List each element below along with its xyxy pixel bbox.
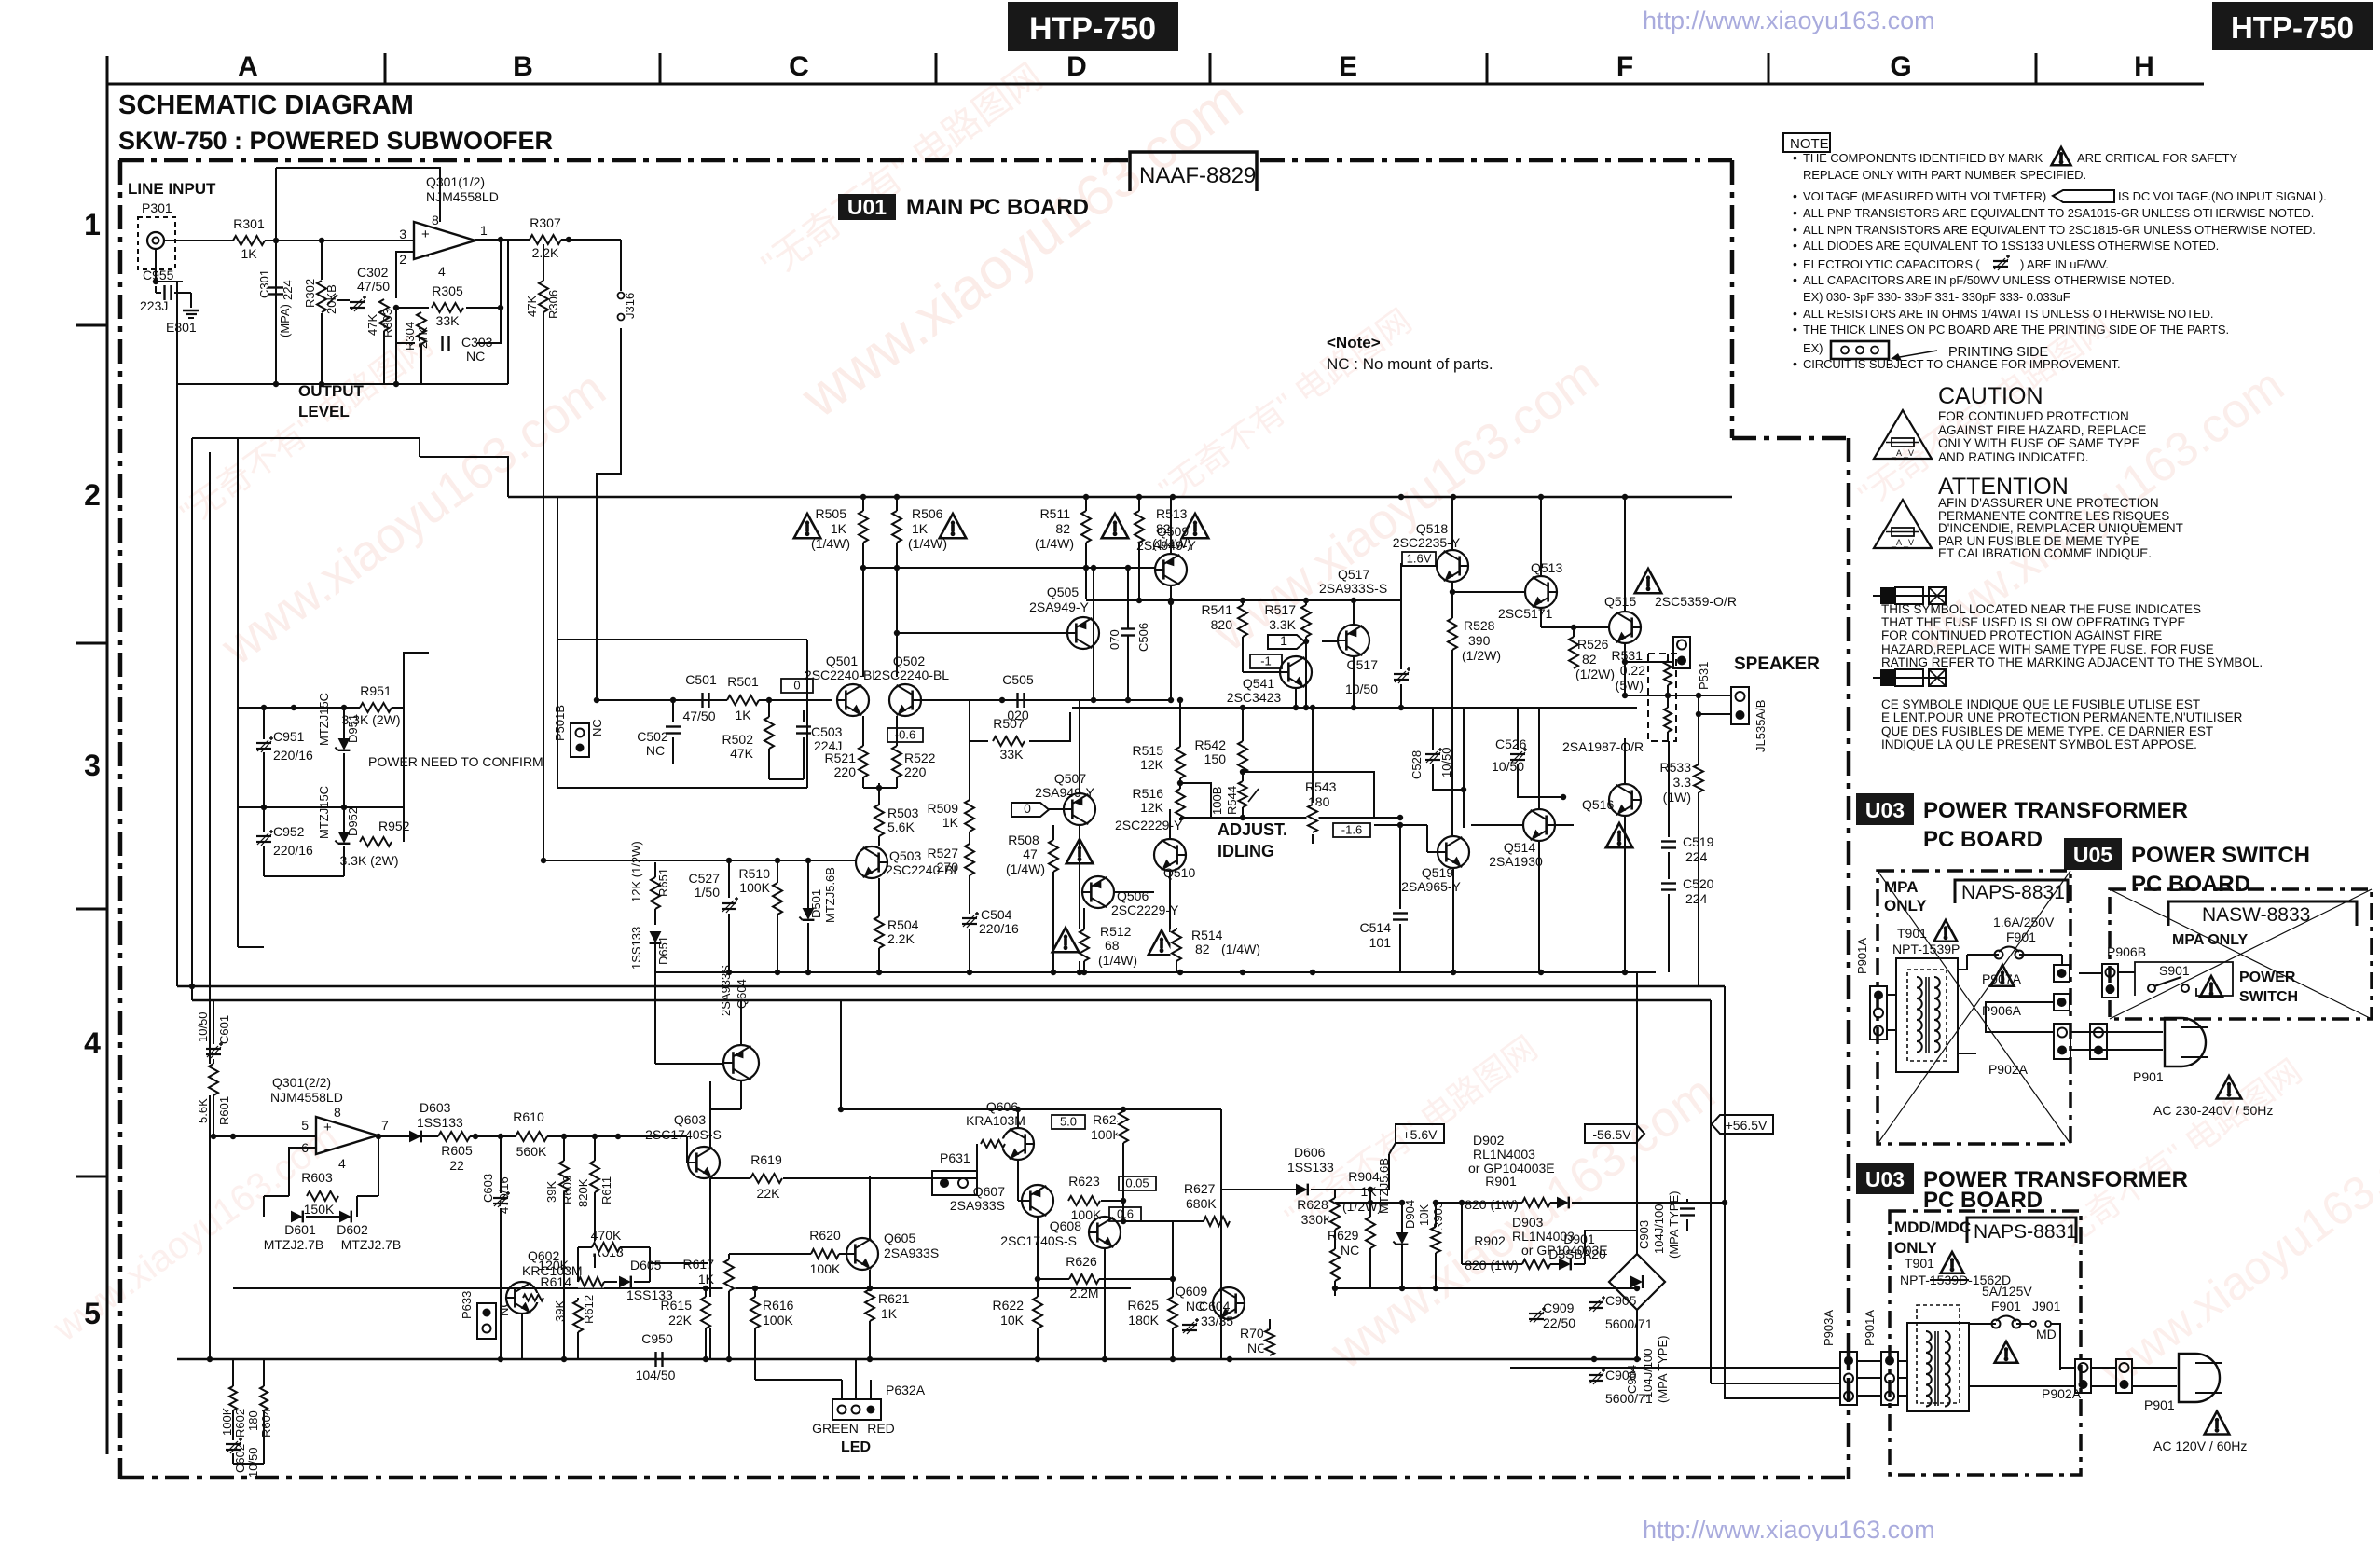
svg-text:R544: R544	[1225, 786, 1239, 815]
connector P633	[477, 1303, 496, 1339]
svg-text:2SC5359-O/R: 2SC5359-O/R	[1655, 594, 1737, 609]
diode D605	[619, 1276, 631, 1288]
svg-text:C506: C506	[1136, 623, 1150, 652]
svg-text:MPA: MPA	[1884, 878, 1919, 896]
svg-text:R609: R609	[560, 1176, 574, 1204]
svg-text:820K: 820K	[576, 1178, 590, 1207]
svg-text:AC 120V / 60Hz: AC 120V / 60Hz	[2153, 1438, 2247, 1453]
svg-text:0: 0	[1024, 801, 1031, 816]
svg-text:3: 3	[399, 227, 406, 241]
resistor R531 dashed block	[1648, 654, 1676, 741]
fuse slow-blow symbol 1	[1873, 595, 1946, 597]
value box 0.05	[1119, 1176, 1156, 1190]
wire speaker line	[1625, 695, 1731, 696]
wire MPA to plug	[2070, 1031, 2163, 1033]
resistor R304	[416, 312, 428, 344]
svg-text:C601: C601	[217, 1015, 231, 1044]
svg-text:2SA965-Y: 2SA965-Y	[1401, 879, 1461, 894]
main board border right edge lower	[1847, 438, 1851, 1479]
capacitor C519	[1668, 741, 1670, 837]
svg-text:2: 2	[399, 252, 406, 267]
resistor R501	[727, 695, 759, 707]
svg-text:Q541: Q541	[1243, 676, 1274, 691]
svg-text:Q513: Q513	[1531, 560, 1562, 575]
svg-text:2.2K: 2.2K	[532, 245, 559, 260]
svg-text:C952: C952	[273, 824, 305, 839]
value box -1	[1250, 654, 1282, 668]
resistor R517	[1305, 599, 1307, 606]
svg-text:U05: U05	[2073, 843, 2112, 867]
svg-text:0: 0	[793, 679, 800, 693]
svg-text:MTZJ15C: MTZJ15C	[317, 693, 331, 746]
svg-text:R303: R303	[380, 309, 394, 337]
capacitor C520	[1661, 882, 1676, 884]
svg-text:RL1N4003: RL1N4003	[1473, 1147, 1535, 1162]
wire opamp2 minus loop	[289, 1148, 316, 1196]
svg-text:R504: R504	[887, 917, 919, 932]
svg-text:P531: P531	[1697, 662, 1711, 690]
svg-text:THAT THE FUSE USED IS SLOW OPE: THAT THE FUSE USED IS SLOW OPERATING TYP…	[1881, 615, 2186, 629]
svg-text:-1.6: -1.6	[1341, 823, 1362, 837]
svg-text:Q514: Q514	[1504, 840, 1535, 855]
svg-text:2SC2229-Y: 2SC2229-Y	[1115, 818, 1183, 832]
wire bias column up	[237, 438, 239, 708]
svg-text:P906B: P906B	[2107, 944, 2146, 959]
svg-text:R541: R541	[1202, 602, 1233, 617]
jumper J316	[620, 240, 622, 291]
svg-text:SWITCH: SWITCH	[2239, 989, 2298, 1005]
value box 0 Q501	[781, 679, 813, 693]
svg-text:R509: R509	[928, 801, 959, 816]
svg-text:GREEN: GREEN	[812, 1421, 859, 1436]
svg-text:R952: R952	[378, 819, 410, 833]
wire bias bus 1	[238, 707, 404, 709]
resistor R303	[378, 299, 391, 331]
svg-text:MTZJ15C: MTZJ15C	[317, 786, 331, 839]
svg-text:D952: D952	[346, 807, 360, 836]
svg-text:FOR CONTINUED PROTECTION AGAIN: FOR CONTINUED PROTECTION AGAINST FIRE	[1881, 628, 2162, 642]
svg-text:1K: 1K	[831, 521, 847, 536]
svg-text:39K: 39K	[544, 1181, 558, 1203]
svg-text:C503: C503	[811, 724, 843, 739]
ground E801	[183, 310, 199, 311]
plug P901 MDD	[2179, 1354, 2220, 1402]
svg-text:10K: 10K	[1417, 1204, 1431, 1226]
wires transformer MPA	[1887, 994, 1896, 996]
svg-text:1SS133: 1SS133	[417, 1115, 463, 1130]
svg-text:180: 180	[246, 1410, 260, 1431]
resistor R619	[710, 1177, 727, 1179]
svg-text:NC : No mount of parts.: NC : No mount of parts.	[1327, 355, 1493, 373]
resistor R612	[577, 1298, 579, 1303]
svg-text:270: 270	[937, 860, 959, 874]
op-amp U301a	[414, 222, 475, 259]
capacitor C527	[728, 862, 730, 898]
capacitor C301	[275, 241, 277, 328]
svg-text:104J/100: 104J/100	[1641, 1349, 1655, 1399]
capacitor C602	[226, 1443, 241, 1445]
board name box NAAF-8829	[1130, 152, 1257, 191]
svg-text:Q519: Q519	[1422, 865, 1453, 880]
svg-text:22K: 22K	[757, 1186, 781, 1201]
svg-text:R610: R610	[513, 1109, 544, 1124]
svg-text:Q506: Q506	[1117, 888, 1149, 903]
svg-text:NAPS-8831: NAPS-8831	[1961, 882, 2065, 903]
svg-text:1.6A/250V: 1.6A/250V	[1993, 915, 2055, 929]
note dc voltage tag symbol	[2053, 190, 2114, 202]
svg-text:C528: C528	[1410, 750, 1424, 779]
svg-text:•: •	[1793, 188, 1797, 203]
capacitor C951	[256, 742, 271, 744]
resistor R615	[705, 1288, 707, 1298]
svg-text:22: 22	[449, 1158, 464, 1173]
svg-text:Q505: Q505	[1047, 585, 1079, 599]
svg-text:R602: R602	[233, 1409, 247, 1438]
svg-text:R510: R510	[739, 866, 771, 881]
svg-text:R306: R306	[546, 290, 560, 319]
connector JL535A/B speaker	[1731, 687, 1749, 724]
svg-text:2SC2235-Y: 2SC2235-Y	[1393, 535, 1461, 550]
svg-text:2.2K: 2.2K	[887, 931, 915, 946]
diode D601	[291, 1211, 303, 1223]
svg-text:220/16: 220/16	[273, 843, 313, 858]
resistor R307	[530, 234, 561, 246]
diode D603	[409, 1131, 421, 1143]
svg-text:ARE CRITICAL FOR SAFETY: ARE CRITICAL FOR SAFETY	[2077, 151, 2237, 165]
svg-text:2SC3423: 2SC3423	[1227, 690, 1282, 705]
svg-text:P906A: P906A	[1982, 1003, 2022, 1018]
svg-text:P901A: P901A	[1863, 1310, 1877, 1346]
svg-text:224: 224	[1685, 849, 1708, 864]
warning fuse MDD	[1995, 1341, 2018, 1363]
svg-text:R501: R501	[727, 674, 759, 689]
svg-text:MPA ONLY: MPA ONLY	[2172, 932, 2249, 948]
svg-text:P631: P631	[940, 1150, 970, 1165]
resistor R623	[1068, 1195, 1100, 1207]
svg-text:C950: C950	[641, 1331, 673, 1346]
svg-text:Q607: Q607	[973, 1184, 1005, 1199]
svg-text:NAAF-8829: NAAF-8829	[1139, 163, 1256, 188]
wires MDD to plug	[2060, 1367, 2075, 1369]
capacitor C506	[1127, 568, 1129, 628]
svg-text:R528: R528	[1464, 618, 1495, 633]
svg-text:S901: S901	[2159, 963, 2190, 978]
svg-text:MAIN PC BOARD: MAIN PC BOARD	[906, 195, 1089, 220]
svg-text:101: 101	[1369, 935, 1392, 950]
svg-text:•: •	[1793, 356, 1797, 371]
svg-text:5: 5	[84, 1297, 101, 1330]
svg-text:D601: D601	[284, 1222, 316, 1237]
svg-text:R527: R527	[928, 846, 959, 860]
svg-text:R621: R621	[878, 1291, 910, 1306]
svg-text:•: •	[1793, 256, 1797, 271]
capacitor C528	[1432, 708, 1434, 750]
svg-text:ALL NPN TRANSISTORS ARE EQUIVA: ALL NPN TRANSISTORS ARE EQUIVALENT TO 2S…	[1803, 223, 2316, 237]
voltage tag -56.5V	[1585, 1124, 1644, 1143]
svg-text:P901A: P901A	[1855, 938, 1869, 974]
svg-text:_A _V: _A _V	[1891, 448, 1914, 458]
svg-text:C505: C505	[1002, 672, 1034, 687]
wire +5.6V rail	[1388, 1154, 1390, 1190]
svg-text:47K: 47K	[365, 314, 379, 336]
svg-text:D951: D951	[346, 714, 360, 743]
svg-text:G: G	[1890, 51, 1911, 82]
svg-text:220/16: 220/16	[979, 921, 1019, 936]
svg-text:P632A: P632A	[886, 1383, 926, 1397]
svg-text:4: 4	[438, 264, 446, 279]
svg-text:•: •	[1793, 322, 1797, 337]
svg-text:C517: C517	[1347, 657, 1379, 672]
svg-text:THE THICK LINES ON PC BOARD AR: THE THICK LINES ON PC BOARD ARE THE PRIN…	[1803, 323, 2229, 337]
wire line down-left long	[176, 282, 178, 384]
svg-text:LEVEL: LEVEL	[298, 403, 350, 420]
svg-text:OUTPUT: OUTPUT	[298, 382, 365, 400]
warning plug MDD	[2205, 1411, 2230, 1435]
svg-text:2SA933S: 2SA933S	[719, 965, 733, 1016]
transistor Q514	[1523, 809, 1555, 841]
svg-text:J316: J316	[623, 293, 637, 319]
wire vertical right rail B	[1710, 497, 1712, 1000]
capacitor C603	[500, 1136, 502, 1193]
resistor R504	[874, 916, 886, 948]
svg-text:HTP-750: HTP-750	[2231, 10, 2354, 45]
svg-text:<Note>: <Note>	[1327, 334, 1381, 351]
fuse slow-blow symbol 2	[1873, 677, 1946, 679]
warning R506	[940, 514, 967, 538]
svg-text:R307: R307	[530, 215, 561, 230]
note printing side symbol	[1831, 341, 1889, 359]
note box	[1783, 133, 1830, 152]
svg-text:R623: R623	[1068, 1174, 1100, 1189]
wire mid lower rail	[233, 1287, 1131, 1289]
svg-text:68: 68	[1105, 938, 1120, 953]
svg-text:D: D	[1066, 51, 1087, 82]
svg-text:NASW-8833: NASW-8833	[2202, 904, 2310, 926]
main board border bottom edge	[120, 1476, 1849, 1480]
svg-text:Q517: Q517	[1338, 567, 1369, 582]
svg-text:1: 1	[1280, 633, 1287, 648]
svg-text:NJM4558LD: NJM4558LD	[426, 189, 499, 204]
svg-text:R543: R543	[1305, 779, 1337, 794]
fuse F901 MPA	[1995, 951, 2003, 959]
grid row ticks	[76, 324, 107, 327]
capacitor C909	[1529, 1313, 1544, 1314]
svg-text:R612: R612	[582, 1295, 596, 1324]
wire Q605 vertical	[869, 1109, 871, 1239]
svg-text:C903: C903	[1637, 1220, 1651, 1249]
svg-text:Q510: Q510	[1163, 865, 1195, 880]
svg-text:C514: C514	[1360, 920, 1392, 935]
svg-text:10/50: 10/50	[246, 1447, 260, 1478]
capacitor C601	[213, 1000, 214, 1044]
svg-text:R651: R651	[656, 868, 670, 897]
svg-text:VOLTAGE (MEASURED WITH VOLTMET: VOLTAGE (MEASURED WITH VOLTMETER)	[1803, 189, 2046, 203]
svg-text:C526: C526	[1495, 736, 1527, 751]
svg-text:ALL RESISTORS ARE IN OHMS 1/4W: ALL RESISTORS ARE IN OHMS 1/4WATTS UNLES…	[1803, 307, 2213, 321]
svg-text:C909: C909	[1543, 1300, 1575, 1315]
svg-text:R516: R516	[1133, 786, 1164, 801]
resistor R616	[754, 1288, 756, 1297]
svg-text:C501: C501	[685, 672, 717, 687]
svg-text:Q501: Q501	[826, 654, 858, 668]
svg-text:+: +	[323, 1120, 332, 1135]
resistor R533	[1710, 695, 1712, 764]
svg-text:10K: 10K	[1000, 1313, 1025, 1328]
svg-text:R302: R302	[303, 279, 317, 308]
U01 label MAIN PC BOARD	[838, 194, 896, 220]
svg-text:2SC2240-BL: 2SC2240-BL	[874, 667, 949, 682]
svg-text:F901: F901	[2006, 929, 2036, 944]
svg-text:5: 5	[301, 1118, 309, 1133]
svg-text:•: •	[1793, 272, 1797, 287]
capacitor C950	[654, 1352, 656, 1367]
transistor Q541	[1280, 656, 1312, 688]
svg-text:4: 4	[84, 1026, 101, 1060]
svg-text:D651: D651	[656, 936, 670, 965]
svg-text:EX): EX)	[1803, 341, 1823, 355]
svg-text:R508: R508	[1008, 832, 1039, 847]
main board border U01 top edge	[119, 158, 1128, 163]
svg-text:Q509: Q509	[1157, 524, 1189, 539]
wire long vertical B	[209, 452, 211, 1359]
warning Q516	[1606, 823, 1633, 847]
U03 MPA board diagonal cross	[1878, 871, 2070, 1144]
svg-text:MD: MD	[2036, 1327, 2057, 1341]
svg-text:1/50: 1/50	[695, 885, 720, 900]
svg-text:PRINTING SIDE: PRINTING SIDE	[1948, 345, 2048, 360]
resistor R509	[969, 741, 970, 800]
capacitor C517	[1400, 599, 1402, 669]
feedback wires op-amp 1	[414, 251, 422, 253]
svg-text:E801: E801	[166, 320, 197, 335]
wire long bus negative	[192, 999, 1711, 1001]
wire R951 to column	[404, 653, 429, 708]
wire upper rail lower section	[841, 1108, 1221, 1110]
wire top bus left leg	[597, 328, 621, 700]
wire Q505 column	[1093, 568, 1094, 700]
svg-text:•: •	[1793, 306, 1797, 321]
resistor R522	[896, 716, 898, 746]
svg-text:A: A	[238, 51, 258, 82]
svg-text:R626: R626	[1066, 1254, 1097, 1269]
svg-text:E LENT.POUR UNE PROTECTION PER: E LENT.POUR UNE PROTECTION PERMANENTE,N'…	[1881, 710, 2243, 724]
voltage tag +5.6V	[1396, 1124, 1444, 1143]
value box -0.6	[887, 728, 923, 742]
note electrolytic capacitor symbol	[1993, 260, 2008, 262]
svg-text:KRA103M: KRA103M	[966, 1113, 1025, 1128]
svg-text:47: 47	[1023, 846, 1038, 861]
wire second bus Q509 base	[863, 567, 1155, 569]
resistor R503	[878, 788, 880, 805]
value tag 1	[1268, 635, 1305, 649]
wire Q519 Q514 base line	[1427, 824, 1523, 826]
svg-text:470/16: 470/16	[497, 1176, 511, 1214]
capacitor C952	[256, 835, 271, 837]
warning R508	[1066, 839, 1094, 863]
svg-text:Q602: Q602	[528, 1248, 559, 1263]
svg-text:R903: R903	[1431, 1202, 1445, 1231]
svg-text:27K: 27K	[416, 327, 430, 349]
wire mid collect line	[655, 971, 1218, 973]
svg-text:R305: R305	[432, 283, 463, 298]
warning R512 right	[1149, 930, 1176, 955]
svg-text:ALL PNP TRANSISTORS ARE EQUIVA: ALL PNP TRANSISTORS ARE EQUIVALENT TO 2S…	[1803, 206, 2314, 220]
resistor R502	[768, 700, 770, 718]
svg-text:2SA949-Y: 2SA949-Y	[1035, 785, 1094, 800]
wire Q517 base bus	[1086, 599, 1401, 601]
U03 MPA board outline	[1878, 871, 2070, 1144]
resistor R626	[1069, 1273, 1099, 1286]
svg-text:104/50: 104/50	[636, 1368, 676, 1383]
svg-text:_A _V: _A _V	[1891, 538, 1914, 547]
svg-text:POWER: POWER	[2239, 970, 2296, 985]
main board border right edge upper	[1730, 160, 1735, 438]
svg-text:F901: F901	[1991, 1299, 2021, 1314]
svg-text:ONLY: ONLY	[1894, 1239, 1937, 1257]
svg-text:R531: R531	[1612, 648, 1644, 663]
voltage tag +56.5V	[1712, 1115, 1773, 1134]
svg-text:(1/2W): (1/2W)	[1575, 667, 1615, 681]
svg-text:http://www.xiaoyu163.com: http://www.xiaoyu163.com	[1643, 1516, 1935, 1541]
svg-text:5.0: 5.0	[1060, 1115, 1077, 1129]
svg-text:12K (1/2W): 12K (1/2W)	[629, 841, 643, 902]
attention fuse triangle symbol	[1874, 500, 1932, 548]
svg-text:R616: R616	[763, 1298, 794, 1313]
svg-text:IS DC VOLTAGE.(NO INPUT SIGNAL: IS DC VOLTAGE.(NO INPUT SIGNAL).	[2118, 189, 2327, 203]
svg-text:ONLY: ONLY	[1884, 897, 1927, 915]
capacitor C504	[969, 895, 970, 914]
svg-text:1K: 1K	[881, 1306, 898, 1321]
svg-text:820 (1W): 820 (1W)	[1465, 1197, 1519, 1212]
svg-text:(1/4W): (1/4W)	[1098, 953, 1137, 968]
svg-text:LED: LED	[841, 1439, 871, 1455]
wire third bus Q505 base	[897, 632, 1067, 634]
main board border left edge	[118, 160, 123, 1479]
svg-text:R627: R627	[1184, 1181, 1216, 1196]
U03 label box 2	[1856, 1163, 1914, 1194]
diode D602	[339, 1211, 351, 1223]
connector P632A LED	[832, 1399, 881, 1420]
svg-text:R901: R901	[1485, 1174, 1517, 1189]
transistor Q506	[1082, 876, 1114, 908]
svg-text:PC BOARD: PC BOARD	[1923, 827, 2043, 852]
svg-text:D602: D602	[337, 1222, 368, 1237]
resistor R306	[538, 281, 550, 312]
resistor R514	[1171, 929, 1183, 961]
svg-text:0.22: 0.22	[1620, 663, 1645, 678]
svg-text:C302: C302	[357, 265, 389, 280]
capacitor C526	[1517, 708, 1519, 750]
title box HTP-750 top right	[2212, 2, 2373, 50]
wire opamp2 plus input	[210, 1135, 316, 1137]
svg-text:3.3: 3.3	[1673, 775, 1692, 790]
svg-text:R622: R622	[993, 1298, 1025, 1313]
svg-text:PC BOARD: PC BOARD	[1923, 1188, 2043, 1213]
svg-text:2SA949-Y: 2SA949-Y	[1029, 599, 1089, 614]
wire Q502 out right	[921, 699, 1171, 701]
resistor R609	[563, 1136, 565, 1161]
svg-text:0.05: 0.05	[1125, 1176, 1149, 1190]
svg-text:100K: 100K	[763, 1313, 793, 1328]
svg-text:20KB: 20KB	[324, 284, 338, 314]
transistor Q516	[1609, 784, 1641, 816]
svg-text:•: •	[1793, 238, 1797, 253]
svg-text:POWER NEED TO CONFIRM: POWER NEED TO CONFIRM	[368, 754, 543, 769]
svg-text:1K: 1K	[698, 1272, 715, 1286]
svg-text:100K: 100K	[739, 880, 770, 895]
U05 label box	[2064, 838, 2122, 870]
svg-text:T901: T901	[1897, 926, 1927, 941]
